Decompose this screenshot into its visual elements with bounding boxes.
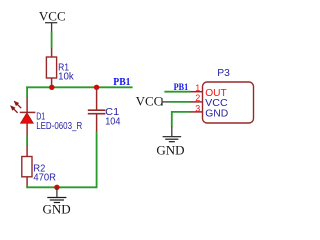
svg-text:LED-0603_R: LED-0603_R bbox=[36, 120, 82, 132]
power symbol VCC (right) bbox=[136, 94, 171, 109]
node junction C1/wire bbox=[94, 85, 99, 90]
node junction GND rail bbox=[54, 185, 59, 190]
wire node to LED bbox=[26, 86, 28, 98]
resistor R2 bbox=[22, 146, 57, 188]
svg-text:1: 1 bbox=[195, 83, 200, 93]
svg-text:GND: GND bbox=[205, 108, 228, 120]
svg-text:3: 3 bbox=[195, 103, 200, 113]
node junction R1/wire bbox=[49, 85, 54, 90]
svg-text:470R: 470R bbox=[33, 172, 56, 184]
ground symbol (left) bbox=[43, 187, 71, 216]
wire pin2 bbox=[170, 101, 191, 103]
pin 2 bbox=[190, 101, 203, 103]
svg-text:10k: 10k bbox=[58, 71, 74, 83]
wire pin1 bbox=[164, 91, 190, 93]
wire bottom ground rail bbox=[26, 186, 96, 188]
resistor R1 bbox=[46, 48, 74, 87]
ground symbol (right) bbox=[156, 127, 184, 158]
pin 1 bbox=[190, 91, 203, 93]
capacitor C1 bbox=[88, 87, 121, 132]
svg-text:VCC: VCC bbox=[136, 94, 163, 109]
emission arrow 1 bbox=[14, 101, 21, 108]
pin 3 bbox=[190, 111, 203, 113]
svg-text:GND: GND bbox=[156, 143, 184, 158]
svg-text:VCC: VCC bbox=[39, 8, 66, 23]
svg-text:PB1: PB1 bbox=[174, 82, 189, 92]
LED D1 bbox=[10, 98, 82, 137]
wire PB1 horizontal bbox=[26, 86, 132, 88]
wire VCC to R1 bbox=[51, 32, 53, 49]
svg-text:GND: GND bbox=[43, 201, 71, 216]
svg-text:104: 104 bbox=[105, 116, 120, 128]
wire pin3 to ground bbox=[172, 112, 191, 127]
wire LED to R2 bbox=[26, 136, 28, 146]
svg-text:2: 2 bbox=[195, 93, 200, 103]
svg-text:P3: P3 bbox=[217, 67, 230, 79]
svg-text:PB1: PB1 bbox=[113, 77, 130, 88]
connector P3 bbox=[203, 67, 254, 123]
power symbol VCC (left) bbox=[39, 8, 66, 32]
wire C1 to ground rail bbox=[96, 131, 98, 188]
emission arrow 2 bbox=[10, 106, 17, 113]
